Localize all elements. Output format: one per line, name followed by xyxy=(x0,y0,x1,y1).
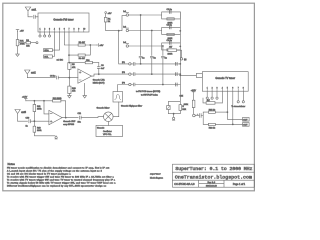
capacitor C10 series xyxy=(18,117,49,127)
svg-text:+5V: +5V xyxy=(20,30,24,32)
U1 pin3 NC circle xyxy=(48,32,50,37)
svg-text:+12V: +12V xyxy=(191,90,197,92)
node Vtune xyxy=(36,42,38,44)
svg-text:R4 4k7: R4 4k7 xyxy=(79,58,86,60)
RC pair row3 xyxy=(162,43,181,50)
balun filter cluster xyxy=(168,85,184,118)
capacitor C2 xyxy=(167,9,172,14)
svg-text:R3 4k7: R3 4k7 xyxy=(79,42,86,44)
capacitor row B series xyxy=(176,73,178,76)
potentiometer RV1 xyxy=(16,31,26,45)
wire bus down to IF1 row xyxy=(119,31,129,64)
svg-text:47k: 47k xyxy=(72,67,75,69)
resistor R11 bias xyxy=(33,101,41,121)
flag AUD L xyxy=(243,118,250,122)
resistor R16 xyxy=(208,123,242,129)
resistor R14 xyxy=(184,100,195,114)
svg-text:R16 1k: R16 1k xyxy=(209,128,215,130)
rail wire xyxy=(26,100,35,102)
svg-text:Oscillator: Oscillator xyxy=(103,130,112,133)
wire mixer to FL1 xyxy=(113,102,119,117)
column drop row3 with C7 xyxy=(161,45,166,84)
junction R5/FB1 xyxy=(69,62,70,63)
svg-text:10n: 10n xyxy=(78,122,81,124)
svg-text:+5V: +5V xyxy=(108,13,112,15)
svg-text:C15: C15 xyxy=(180,96,185,98)
svg-text:SDA: SDA xyxy=(44,49,49,52)
svg-text:VFO PLL: VFO PLL xyxy=(103,134,112,136)
svg-text:+12V: +12V xyxy=(22,97,28,99)
power +5V (pullups) xyxy=(97,44,104,47)
flag SDA xyxy=(44,49,53,53)
note to TV PCB xyxy=(136,90,160,96)
capacitor C11 series xyxy=(78,113,104,124)
svg-text:Generic VHF: Generic VHF xyxy=(63,120,76,123)
flag SCL xyxy=(44,55,53,59)
svg-text:7: 7 xyxy=(69,28,70,30)
svg-text:5: 5 xyxy=(59,28,60,30)
ground (R10) xyxy=(68,96,72,98)
junction bus row3 xyxy=(180,46,181,47)
resistor R8 xyxy=(167,49,174,56)
svg-text:3: 3 xyxy=(49,28,50,30)
svg-text:2: 2 xyxy=(212,88,213,90)
svg-text:4: 4 xyxy=(54,28,55,30)
U1 pin ticks and numbers xyxy=(40,28,86,32)
mixer U4 xyxy=(97,107,114,122)
power +5V pot rail xyxy=(16,30,24,33)
svg-text:Generic FM tuner: Generic FM tuner xyxy=(53,17,73,21)
oscillator U5 box xyxy=(96,125,123,136)
svg-text:C11: C11 xyxy=(78,113,82,115)
label U3 xyxy=(63,120,76,126)
IF row A: connector + cap xyxy=(122,62,180,65)
svg-text:4: 4 xyxy=(222,88,223,90)
svg-text:C2 1n: C2 1n xyxy=(167,9,172,11)
svg-text:470R: 470R xyxy=(20,44,25,46)
svg-text:R15 1k: R15 1k xyxy=(209,109,215,111)
resistor R10 bias bottom xyxy=(68,69,77,95)
connector J3 input xyxy=(123,42,163,47)
wire pin6 to pullup R3 xyxy=(64,32,78,45)
svg-text:Generic Highpass filter: Generic Highpass filter xyxy=(121,105,142,108)
wire mixer to oscillator xyxy=(107,122,109,126)
svg-text:to SW IF+IF balun: to SW IF+IF balun xyxy=(141,93,159,96)
svg-text:1: 1 xyxy=(207,88,208,90)
wire pin5 to SDA flag xyxy=(52,32,59,50)
svg-text:Notes: Notes xyxy=(8,162,16,166)
svg-text:Rev 1.0: Rev 1.0 xyxy=(208,182,216,184)
connector J5 audio in xyxy=(193,114,199,117)
title block xyxy=(173,164,255,187)
resistor R9 to J4 xyxy=(168,47,182,58)
svg-text:OneTransistor.blogspot.com: OneTransistor.blogspot.com xyxy=(175,174,252,180)
svg-text:Generic TV tuner: Generic TV tuner xyxy=(215,76,235,80)
junction R1/bus xyxy=(118,30,119,31)
svg-text:1u: 1u xyxy=(165,57,167,59)
capacitor C3 xyxy=(167,24,172,29)
capacitor C4 xyxy=(167,40,172,45)
capacitor C9 xyxy=(97,63,105,75)
varistor RV2 xyxy=(167,106,170,110)
wire pullups to +5V xyxy=(85,45,97,55)
svg-text:C3 1n: C3 1n xyxy=(167,24,172,26)
power +5V (R1 top) xyxy=(105,12,112,15)
IF row C: connector + cap xyxy=(122,83,180,86)
resistor R17 xyxy=(203,98,222,104)
wire fb to inverting input xyxy=(44,101,49,114)
svg-text:C8 1u: C8 1u xyxy=(50,75,55,77)
U3 output wire xyxy=(62,117,78,119)
svg-text:(o): (o) xyxy=(184,59,187,61)
svg-text:8: 8 xyxy=(74,28,75,30)
IF row B: connector + cap xyxy=(122,72,180,75)
IC U1 Generic FM tuner xyxy=(38,13,89,32)
svg-text:super tuner: super tuner xyxy=(150,173,161,176)
capacitor row C series xyxy=(176,83,178,86)
wire pin6 down to R16 row xyxy=(232,91,234,124)
capacitor C8 series xyxy=(27,75,78,79)
svg-text:1: 1 xyxy=(40,28,41,30)
resistor R3 pullup xyxy=(78,42,86,46)
wire pin4 to SCL flag xyxy=(52,32,54,57)
svg-text:uC I2C: uC I2C xyxy=(57,60,64,62)
svg-text:C1 and C8 are DC blocks tuned: C1 and C8 are DC blocks tuned in TV tune… xyxy=(7,172,71,175)
svg-text:SuperTuner: 0.1 to 2000 MHz: SuperTuner: 0.1 to 2000 MHz xyxy=(175,166,252,172)
svg-text:+5V: +5V xyxy=(99,45,103,47)
junction pin7/R4 xyxy=(68,55,69,56)
IC U6 Generic TV tuner xyxy=(202,72,248,92)
ground (R13/U3) xyxy=(55,136,57,139)
junction pullup node xyxy=(90,44,91,45)
svg-text:To receive with TV tuner: trig: To receive with TV tuner: trigger SW and… xyxy=(7,178,116,181)
svg-text:4u7: 4u7 xyxy=(101,68,105,70)
svg-text:to FM PCB traces (NOTE): to FM PCB traces (NOTE) xyxy=(136,90,160,93)
svg-text:1n: 1n xyxy=(26,126,28,128)
svg-text:MMIC (SOT): MMIC (SOT) xyxy=(93,82,105,84)
svg-text:To startup signals below 50 MH: To startup signals below 50 MHz with TV … xyxy=(7,181,116,184)
resistor R13 to gnd xyxy=(33,121,55,136)
wire pin5 down to R15 xyxy=(227,91,242,119)
svg-text:amp BF998: amp BF998 xyxy=(63,124,75,126)
connector J2 input xyxy=(123,26,152,31)
svg-text:ant3: ant3 xyxy=(21,111,26,114)
svg-text:2015.10.18: 2015.10.18 xyxy=(206,186,218,188)
svg-text:5: 5 xyxy=(227,88,228,90)
svg-text:1u: 1u xyxy=(154,57,156,59)
resistor R18 xyxy=(179,105,187,111)
wire pin4 down to R17 row xyxy=(221,91,223,103)
svg-text:Generic: Generic xyxy=(97,127,104,130)
resistor R6 xyxy=(167,18,174,25)
antenna ANT2 xyxy=(25,70,37,78)
U6 pin3 NC xyxy=(216,91,218,99)
junction input node xyxy=(69,77,70,78)
wire pin7 down to R4 and R5 xyxy=(69,32,78,63)
capacitor C12 polarized xyxy=(197,114,203,118)
split node audio xyxy=(203,112,208,124)
svg-text:CC-BY-NC-SA 4.0: CC-BY-NC-SA 4.0 xyxy=(174,183,195,186)
svg-text:8: 8 xyxy=(243,88,244,90)
svg-text:A L-match input about 50 / 75: A L-match input about 50 / 75 ohm of the… xyxy=(7,169,103,172)
svg-text:6: 6 xyxy=(64,28,65,30)
svg-text:ant1: ant1 xyxy=(32,9,37,12)
U6 pin ticks xyxy=(207,88,244,92)
svg-text:3: 3 xyxy=(217,88,218,90)
page frame xyxy=(3,3,255,191)
svg-text:10k: 10k xyxy=(26,45,29,47)
resistor R5 bias top xyxy=(68,63,76,70)
ground (pot) xyxy=(16,46,20,57)
junction rowA/col1 xyxy=(140,63,141,64)
svg-text:4k7: 4k7 xyxy=(169,47,173,49)
svg-text:6: 6 xyxy=(232,88,233,90)
op-amp U2 LNA xyxy=(78,69,92,83)
U6 pin7 demod xyxy=(237,91,239,103)
svg-text:Page 1 of 1: Page 1 of 1 xyxy=(233,183,246,186)
svg-text:1u: 1u xyxy=(142,57,144,59)
power +12V (TV) with resistor R14 xyxy=(191,90,197,100)
op-amp U3 VHF amp xyxy=(49,110,62,124)
flag IF in xyxy=(196,74,202,78)
svg-text:7: 7 xyxy=(238,88,239,90)
wire FL1 to IF3 connector xyxy=(118,85,129,92)
power +12V (U3 rail) xyxy=(22,97,28,101)
svg-text:block diagram: block diagram xyxy=(150,177,163,180)
junction bus row2 xyxy=(180,30,181,31)
U1 pin2 NC circle xyxy=(44,32,46,37)
resistor R4 pullup xyxy=(78,54,86,60)
svg-text:1k: 1k xyxy=(108,21,110,23)
svg-text:10: 10 xyxy=(83,28,85,30)
resistor R2 series xyxy=(26,40,36,47)
column drop row2 with C6 xyxy=(150,30,155,74)
svg-text:To receive with FM tuner: trig: To receive with FM tuner: trigger SW and… xyxy=(7,175,115,178)
flag AUD R xyxy=(243,123,250,127)
svg-text:R: R xyxy=(182,106,184,108)
notes lines xyxy=(7,166,116,187)
capacitor row A series xyxy=(176,62,178,65)
svg-text:50R: 50R xyxy=(182,109,186,111)
resistor R7 xyxy=(167,33,174,40)
svg-text:Generic Mixer: Generic Mixer xyxy=(97,107,110,110)
svg-text:100k: 100k xyxy=(37,108,41,110)
svg-text:9: 9 xyxy=(78,28,79,30)
connector J1 input xyxy=(123,11,140,16)
svg-text:To demodulator: To demodulator xyxy=(231,105,245,108)
capacitor C1 (series, antenna feed) xyxy=(28,15,38,19)
RC pair row2 xyxy=(152,27,181,34)
ground (balun) xyxy=(172,117,175,120)
U6 pin1 NC xyxy=(206,91,208,99)
junction balun gnd xyxy=(173,113,174,114)
svg-text:RV1: RV1 xyxy=(20,41,25,43)
svg-text:C4 1n: C4 1n xyxy=(167,40,172,42)
note near title block xyxy=(150,173,163,180)
svg-text:47k: 47k xyxy=(72,90,75,92)
svg-text:R12 100k: R12 100k xyxy=(53,98,62,100)
U1 pin1 NC circle xyxy=(39,32,41,37)
label U2 xyxy=(93,79,106,85)
svg-text:100R: 100R xyxy=(168,53,173,55)
column drop row1 with C5 xyxy=(139,14,144,64)
wire bus to TV tuner flag xyxy=(180,74,196,76)
svg-text:ant2: ant2 xyxy=(31,71,36,74)
vertical bus right of RC pairs xyxy=(179,12,181,85)
svg-text:C10: C10 xyxy=(26,117,31,119)
wire R1 bottom to In1 xyxy=(106,16,126,31)
highpass filter FL1 xyxy=(113,92,142,108)
resistor R1 xyxy=(104,14,111,24)
svg-text:2: 2 xyxy=(44,28,45,30)
antenna ANT1 xyxy=(25,7,30,15)
U6 pin2 NC xyxy=(211,91,213,99)
ground (U2) xyxy=(83,83,87,98)
feedback resistor R12 xyxy=(34,98,65,118)
svg-text:100k: 100k xyxy=(184,104,188,106)
resistor R15 xyxy=(208,109,227,113)
antenna ANT3 xyxy=(15,110,27,122)
svg-text:Different Oscillator+Highpass: Different Oscillator+Highpass can be rep… xyxy=(7,184,107,187)
connector J4 xyxy=(180,58,186,61)
svg-text:FM tuner needs modification to: FM tuner needs modification to disable d… xyxy=(7,166,109,169)
svg-text:100k: 100k xyxy=(37,130,41,132)
ferrite bead FB1 xyxy=(71,60,99,64)
U6 pin8 demod xyxy=(242,91,244,103)
RC pair row1: wire split xyxy=(141,12,181,19)
U2 output wire to IF2 xyxy=(92,74,129,76)
svg-text:Generic LNA: Generic LNA xyxy=(93,79,106,82)
